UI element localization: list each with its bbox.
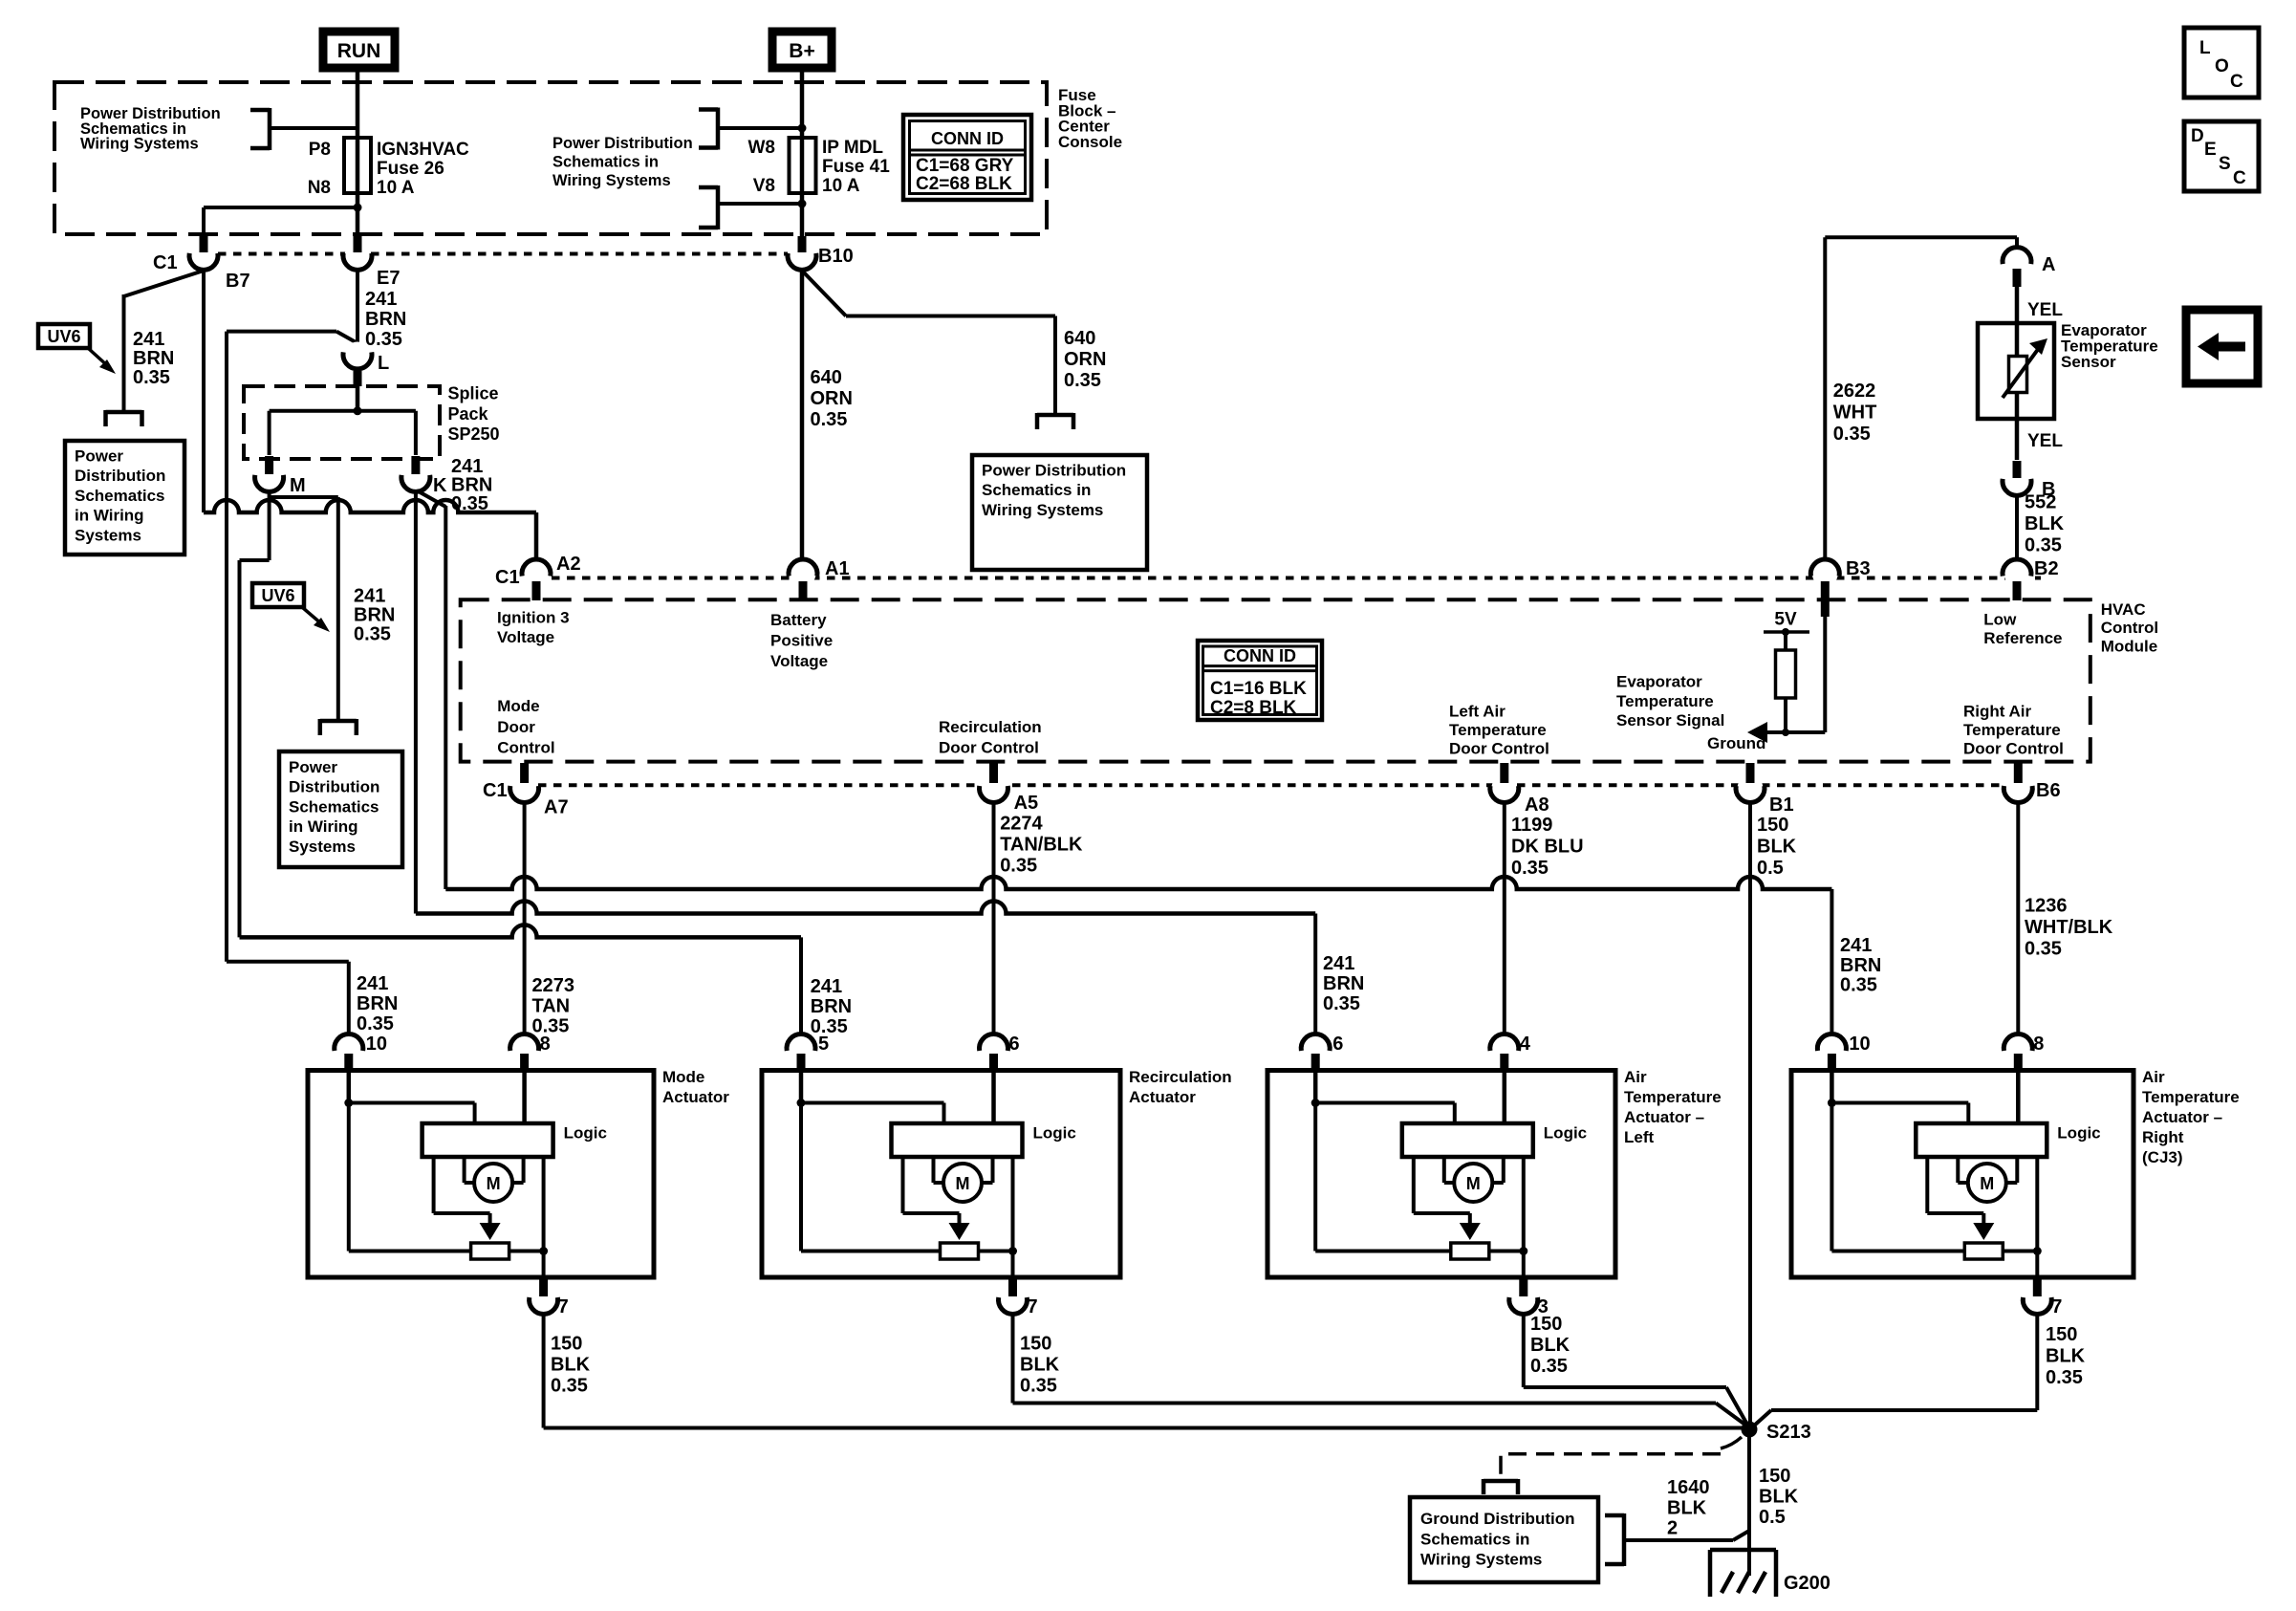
svg-text:0.35: 0.35 <box>1530 1356 1568 1377</box>
svg-text:Distribution: Distribution <box>75 467 165 485</box>
svg-text:Battery: Battery <box>770 611 827 629</box>
svg-text:Control: Control <box>2101 619 2158 637</box>
svg-text:7: 7 <box>2051 1296 2062 1317</box>
svg-text:Actuator: Actuator <box>1129 1088 1196 1106</box>
svg-text:BRN: BRN <box>1840 955 1881 976</box>
svg-text:0.35: 0.35 <box>1511 858 1549 879</box>
svg-text:UV6: UV6 <box>47 327 80 346</box>
svg-text:M: M <box>956 1174 970 1193</box>
svg-text:10: 10 <box>366 1034 387 1055</box>
svg-text:N8: N8 <box>308 178 331 198</box>
svg-text:0.35: 0.35 <box>2025 534 2062 555</box>
svg-text:Systems: Systems <box>289 838 356 856</box>
svg-text:Logic: Logic <box>1544 1124 1587 1143</box>
svg-text:TAN/BLK: TAN/BLK <box>1000 835 1083 856</box>
svg-text:1640: 1640 <box>1667 1477 1710 1498</box>
svg-text:0.35: 0.35 <box>1323 993 1360 1014</box>
svg-text:640: 640 <box>1064 328 1095 349</box>
svg-text:2273: 2273 <box>532 975 575 996</box>
svg-text:L: L <box>378 353 389 374</box>
svg-text:DK BLU: DK BLU <box>1511 836 1584 857</box>
svg-text:IP MDL: IP MDL <box>822 138 883 158</box>
svg-text:BRN: BRN <box>811 996 852 1017</box>
svg-text:ORN: ORN <box>811 388 853 409</box>
svg-text:V8: V8 <box>753 176 775 196</box>
svg-text:Door Control: Door Control <box>1449 740 1549 758</box>
svg-text:150: 150 <box>1757 815 1788 836</box>
svg-text:Temperature: Temperature <box>1449 721 1547 739</box>
svg-text:10: 10 <box>1849 1034 1870 1055</box>
svg-text:Schematics: Schematics <box>75 487 165 505</box>
svg-text:4: 4 <box>1520 1034 1531 1055</box>
svg-text:241: 241 <box>354 586 385 607</box>
svg-text:552: 552 <box>2025 492 2056 513</box>
svg-text:Control: Control <box>497 738 554 756</box>
svg-text:Sensor: Sensor <box>2061 353 2116 371</box>
svg-text:TAN: TAN <box>532 995 571 1016</box>
svg-text:0.35: 0.35 <box>1064 370 1101 391</box>
svg-text:150: 150 <box>1530 1314 1562 1335</box>
svg-text:Fuse 26: Fuse 26 <box>377 159 444 179</box>
svg-text:Door Control: Door Control <box>1963 740 2064 758</box>
svg-text:BRN: BRN <box>133 348 174 369</box>
svg-text:Temperature: Temperature <box>1616 692 1714 710</box>
svg-text:C1: C1 <box>495 567 520 588</box>
svg-text:in Wiring: in Wiring <box>289 817 358 836</box>
svg-text:BLK: BLK <box>1759 1487 1799 1508</box>
svg-text:0.35: 0.35 <box>2025 938 2062 959</box>
svg-text:(CJ3): (CJ3) <box>2142 1148 2183 1166</box>
svg-text:A7: A7 <box>544 796 569 817</box>
svg-text:0.35: 0.35 <box>551 1376 588 1397</box>
svg-text:Wiring Systems: Wiring Systems <box>80 136 199 153</box>
svg-text:BRN: BRN <box>354 605 395 626</box>
svg-text:C1=16 BLK: C1=16 BLK <box>1210 679 1307 699</box>
svg-text:Schematics in: Schematics in <box>552 154 659 171</box>
svg-text:Door Control: Door Control <box>939 738 1039 756</box>
svg-text:2622: 2622 <box>1833 381 1876 402</box>
svg-text:W8: W8 <box>748 138 776 158</box>
svg-text:A1: A1 <box>825 558 850 579</box>
svg-text:BLK: BLK <box>1530 1335 1570 1356</box>
svg-text:Right: Right <box>2142 1128 2184 1146</box>
svg-text:Voltage: Voltage <box>770 652 828 670</box>
svg-text:BLK: BLK <box>1667 1497 1707 1518</box>
svg-text:Positive: Positive <box>770 632 833 650</box>
svg-text:Door: Door <box>497 718 535 736</box>
svg-text:Logic: Logic <box>2057 1124 2100 1143</box>
svg-text:BLK: BLK <box>2025 513 2065 534</box>
svg-text:6: 6 <box>1009 1034 1020 1055</box>
svg-text:Mode: Mode <box>662 1068 704 1086</box>
svg-text:Low: Low <box>1983 611 2017 629</box>
svg-text:Module: Module <box>2101 637 2158 655</box>
svg-text:Left Air: Left Air <box>1449 703 1505 721</box>
svg-text:A2: A2 <box>556 554 581 575</box>
svg-text:0.5: 0.5 <box>1759 1507 1786 1528</box>
svg-text:Left: Left <box>1624 1128 1655 1146</box>
svg-text:BRN: BRN <box>365 309 406 330</box>
svg-text:Voltage: Voltage <box>497 628 554 646</box>
svg-text:Logic: Logic <box>564 1124 607 1143</box>
svg-text:B3: B3 <box>1846 558 1871 579</box>
svg-text:B6: B6 <box>2036 780 2061 801</box>
svg-text:7: 7 <box>558 1296 569 1317</box>
svg-text:C1=68 GRY: C1=68 GRY <box>916 156 1014 176</box>
svg-text:150: 150 <box>1020 1334 1051 1355</box>
svg-text:M: M <box>487 1174 501 1193</box>
svg-text:BLK: BLK <box>1757 836 1797 857</box>
svg-text:241: 241 <box>1840 935 1872 956</box>
svg-text:Schematics: Schematics <box>289 797 379 816</box>
svg-text:M: M <box>1980 1174 1994 1193</box>
svg-text:C1: C1 <box>153 252 178 273</box>
svg-text:Schematics in: Schematics in <box>982 481 1091 499</box>
svg-text:Air: Air <box>1624 1068 1647 1086</box>
svg-text:WHT: WHT <box>1833 403 1877 424</box>
svg-text:8: 8 <box>540 1034 551 1055</box>
svg-text:241: 241 <box>357 973 388 994</box>
svg-text:Sensor Signal: Sensor Signal <box>1616 711 1724 729</box>
svg-text:Temperature: Temperature <box>1963 721 2061 739</box>
svg-text:241: 241 <box>133 329 164 350</box>
svg-text:BRN: BRN <box>1323 973 1364 994</box>
svg-text:C: C <box>2233 168 2246 188</box>
svg-text:M: M <box>290 475 306 496</box>
svg-text:K: K <box>433 475 447 496</box>
svg-text:8: 8 <box>2033 1034 2044 1055</box>
svg-text:C1: C1 <box>483 780 508 801</box>
svg-text:0.35: 0.35 <box>811 409 848 430</box>
svg-text:Evaporator: Evaporator <box>1616 673 1702 691</box>
svg-text:150: 150 <box>2046 1324 2077 1345</box>
svg-text:B2: B2 <box>2034 558 2059 579</box>
svg-text:10 A: 10 A <box>822 176 860 196</box>
svg-text:C: C <box>2230 72 2243 92</box>
svg-text:in Wiring: in Wiring <box>75 507 144 525</box>
svg-text:Right Air: Right Air <box>1963 703 2032 721</box>
svg-text:Wiring Systems: Wiring Systems <box>1420 1551 1542 1569</box>
svg-text:Actuator –: Actuator – <box>2142 1108 2222 1126</box>
svg-text:10 A: 10 A <box>377 178 415 198</box>
svg-text:A5: A5 <box>1014 793 1039 814</box>
svg-text:E7: E7 <box>377 268 400 289</box>
svg-text:Power Distribution: Power Distribution <box>552 135 693 152</box>
svg-text:5V: 5V <box>1774 610 1797 630</box>
svg-text:0.35: 0.35 <box>2046 1367 2083 1388</box>
svg-text:Actuator: Actuator <box>662 1088 729 1106</box>
svg-text:BLK: BLK <box>551 1355 591 1376</box>
svg-text:Ignition 3: Ignition 3 <box>497 609 570 627</box>
svg-text:Ground Distribution: Ground Distribution <box>1420 1510 1574 1528</box>
svg-text:0.35: 0.35 <box>811 1016 848 1037</box>
svg-text:1199: 1199 <box>1511 815 1552 836</box>
svg-text:P8: P8 <box>309 140 331 160</box>
svg-text:Wiring Systems: Wiring Systems <box>552 172 671 189</box>
svg-text:HVAC: HVAC <box>2101 600 2146 619</box>
svg-text:Power: Power <box>289 758 337 776</box>
svg-text:G200: G200 <box>1784 1573 1830 1594</box>
svg-text:UV6: UV6 <box>261 586 294 605</box>
svg-text:E: E <box>2204 140 2217 160</box>
svg-text:Distribution: Distribution <box>289 778 379 796</box>
svg-text:D: D <box>2191 126 2204 146</box>
svg-text:Air: Air <box>2142 1068 2165 1086</box>
svg-text:Logic: Logic <box>1033 1124 1076 1143</box>
svg-text:B7: B7 <box>226 271 250 292</box>
svg-text:2: 2 <box>1667 1518 1678 1539</box>
svg-text:Pack: Pack <box>448 404 489 424</box>
svg-text:0.35: 0.35 <box>1840 975 1877 996</box>
svg-text:A: A <box>2042 254 2055 275</box>
svg-text:IGN3HVAC: IGN3HVAC <box>377 140 469 160</box>
svg-text:BRN: BRN <box>357 993 398 1014</box>
svg-text:Recirculation: Recirculation <box>939 718 1042 736</box>
svg-text:Fuse 41: Fuse 41 <box>822 157 890 177</box>
svg-text:Power Distribution: Power Distribution <box>982 462 1126 480</box>
svg-text:0.35: 0.35 <box>1833 424 1871 445</box>
svg-text:7: 7 <box>1028 1296 1038 1317</box>
svg-text:Recirculation: Recirculation <box>1129 1068 1232 1086</box>
svg-text:0.5: 0.5 <box>1757 858 1784 879</box>
svg-text:0.35: 0.35 <box>1000 856 1037 877</box>
svg-text:1236: 1236 <box>2025 896 2068 917</box>
svg-text:WHT/BLK: WHT/BLK <box>2025 917 2113 938</box>
svg-text:CONN ID: CONN ID <box>1224 646 1296 665</box>
svg-text:CONN ID: CONN ID <box>931 129 1004 148</box>
svg-text:Mode: Mode <box>497 697 539 715</box>
svg-text:B10: B10 <box>818 246 854 267</box>
svg-text:M: M <box>1466 1174 1481 1193</box>
svg-text:S: S <box>2219 154 2231 174</box>
svg-text:0.35: 0.35 <box>532 1016 570 1037</box>
svg-text:L: L <box>2199 38 2211 58</box>
svg-text:150: 150 <box>551 1334 582 1355</box>
svg-text:B1: B1 <box>1769 795 1794 816</box>
svg-text:BLK: BLK <box>1020 1355 1060 1376</box>
svg-text:241: 241 <box>365 289 397 310</box>
svg-text:Wiring Systems: Wiring Systems <box>982 501 1103 519</box>
svg-text:SP250: SP250 <box>448 425 500 444</box>
svg-text:2274: 2274 <box>1000 814 1043 835</box>
svg-text:O: O <box>2215 56 2229 76</box>
svg-text:0.35: 0.35 <box>357 1013 394 1034</box>
svg-text:Temperature: Temperature <box>2142 1088 2240 1106</box>
svg-text:YEL: YEL <box>2027 431 2063 451</box>
svg-text:Reference: Reference <box>1983 629 2062 647</box>
svg-text:0.35: 0.35 <box>354 624 391 645</box>
svg-text:S213: S213 <box>1766 1422 1811 1443</box>
svg-text:241: 241 <box>811 976 842 997</box>
svg-text:6: 6 <box>1332 1034 1343 1055</box>
svg-text:A8: A8 <box>1525 795 1549 816</box>
svg-text:BLK: BLK <box>2046 1345 2086 1366</box>
svg-text:C2=8 BLK: C2=8 BLK <box>1210 698 1297 718</box>
svg-text:Power: Power <box>75 447 123 466</box>
svg-text:Actuator –: Actuator – <box>1624 1108 1704 1126</box>
svg-text:0.35: 0.35 <box>133 367 170 388</box>
svg-text:0.35: 0.35 <box>1020 1376 1057 1397</box>
svg-text:B+: B+ <box>789 40 814 62</box>
svg-text:Schematics in: Schematics in <box>1420 1530 1529 1548</box>
svg-text:Splice: Splice <box>448 383 499 403</box>
svg-text:0.35: 0.35 <box>365 329 402 350</box>
svg-text:C2=68 BLK: C2=68 BLK <box>916 174 1012 194</box>
svg-text:241: 241 <box>1323 953 1354 974</box>
svg-text:Console: Console <box>1058 133 1122 151</box>
svg-text:Systems: Systems <box>75 526 141 544</box>
svg-text:150: 150 <box>1759 1466 1790 1487</box>
svg-text:5: 5 <box>818 1034 829 1055</box>
svg-text:YEL: YEL <box>2027 300 2063 320</box>
svg-text:RUN: RUN <box>337 40 381 62</box>
svg-text:ORN: ORN <box>1064 349 1106 370</box>
svg-text:640: 640 <box>811 367 842 388</box>
svg-text:Temperature: Temperature <box>1624 1088 1722 1106</box>
